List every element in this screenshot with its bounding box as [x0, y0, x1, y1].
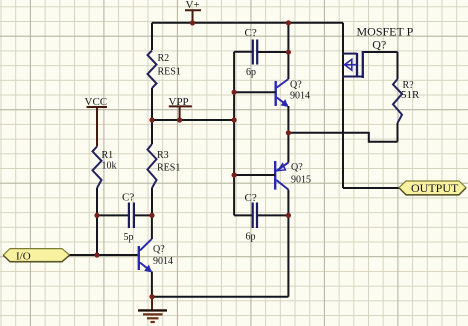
svg-text:R3: R3: [157, 150, 169, 161]
transistor Q? 9015: [275, 161, 311, 190]
junction at C6p bottom right: [286, 213, 291, 218]
wire MOSFET left vertical: [342, 23, 344, 188]
junction at VPP node left: [149, 117, 154, 122]
wire R1 bottom to I/O wire: [96, 188, 98, 255]
transistor Q? 9014 (bottom): [139, 239, 173, 273]
resistor R2: [148, 51, 181, 89]
wire base lead of 9015: [234, 174, 275, 176]
svg-text:C?: C?: [245, 192, 257, 204]
svg-text:9014: 9014: [153, 256, 173, 267]
wire collector of bottom 9014 up to C node: [151, 215, 153, 239]
transistor Q? 9014 (middle): [276, 79, 310, 107]
junction at V+ stem: [190, 20, 195, 25]
junction at 9015 base bus: [232, 172, 237, 177]
junction at 9014 base bus: [232, 90, 237, 95]
junction at VPP bus: [232, 117, 237, 122]
wire emitter of middle 9014 down to node: [287, 106, 289, 163]
resistor R3: [148, 144, 181, 188]
power port VCC: [85, 96, 108, 147]
junction at ground node: [149, 294, 154, 299]
junction at emitter node: [286, 130, 291, 135]
wire left vertical R2 branch top: [151, 23, 153, 50]
wire R3 bottom to C node: [151, 188, 153, 215]
power port V+: [185, 0, 201, 23]
wire node to MOSFET loop: [288, 133, 397, 142]
capacitor C? 6p (bottom): [234, 192, 288, 243]
power port VPP: [169, 96, 192, 120]
svg-text:RES1: RES1: [157, 163, 180, 174]
junction at VPP stem: [177, 117, 182, 122]
wire base lead of middle 9014: [234, 91, 276, 93]
svg-text:Q?: Q?: [372, 38, 386, 52]
junction at rail / right vertical: [286, 20, 291, 25]
wire bottom rail: [152, 296, 289, 298]
wire collector of 9015 down to bottom rail: [287, 190, 289, 297]
wire I/O to Q base: [70, 254, 138, 256]
svg-text:51R: 51R: [401, 89, 420, 101]
wire right vertical from rail down to Q collector: [287, 23, 289, 79]
svg-text:C?: C?: [122, 192, 134, 204]
junction at C6p right lead: [286, 50, 291, 55]
wire emitter of bottom 9014 down to ground rail: [151, 272, 153, 297]
svg-text:MOSFET P: MOSFET P: [357, 25, 414, 39]
capacitor C? 5p: [97, 192, 152, 244]
mosfet Q? MOSFET P: [343, 25, 414, 79]
svg-text:R1: R1: [102, 150, 114, 161]
wire output horizontal: [343, 187, 399, 189]
svg-text:9014: 9014: [290, 91, 310, 102]
wire central vertical bus: [233, 52, 235, 216]
junction at C5p left: [94, 213, 99, 218]
svg-text:RES1: RES1: [158, 67, 181, 78]
svg-text:10k: 10k: [102, 161, 117, 172]
svg-text:OUTPUT: OUTPUT: [411, 181, 459, 195]
port I/O: [3, 249, 69, 263]
resistor R1: [93, 147, 117, 189]
svg-text:5p: 5p: [124, 232, 134, 243]
svg-text:6p: 6p: [246, 232, 256, 243]
ground: [138, 297, 167, 322]
svg-text:V+: V+: [186, 0, 200, 11]
svg-text:Q?: Q?: [291, 162, 303, 173]
svg-text:C?: C?: [245, 27, 257, 39]
junction at C5p right: [149, 213, 154, 218]
svg-text:Q?: Q?: [290, 80, 302, 91]
wire VPP node down to R3: [151, 120, 153, 144]
wire top rail: [152, 22, 343, 24]
svg-text:I/O: I/O: [16, 251, 31, 263]
junction at I/O R1: [94, 252, 99, 257]
capacitor C? 6p (top): [234, 27, 288, 78]
svg-text:Q?: Q?: [153, 244, 165, 255]
resistor R? 51R: [393, 52, 420, 142]
wire R2 bottom to VPP node: [151, 88, 153, 120]
wire VPP horizontal: [152, 119, 234, 121]
port OUTPUT: [399, 181, 466, 195]
svg-text:6p: 6p: [246, 67, 256, 78]
svg-text:9015: 9015: [291, 175, 311, 186]
svg-text:R2: R2: [158, 53, 170, 64]
